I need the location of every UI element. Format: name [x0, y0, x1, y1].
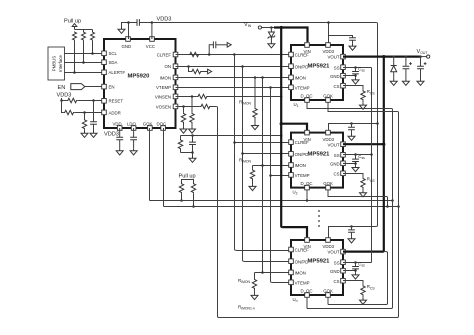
svg-text:VCC: VCC — [146, 44, 155, 49]
ground (VOSEN divider) — [180, 127, 187, 133]
svg-text:GOK: GOK — [323, 288, 333, 293]
capacitor C_ss U1 — [352, 66, 359, 77]
ground (R_CS U2) — [360, 191, 367, 197]
wire IMON bus — [262, 78, 264, 273]
node GND-Css U3 — [354, 269, 357, 272]
wire D_OC U3 drop — [306, 297, 308, 308]
wire GOK U3 route — [328, 252, 388, 305]
node CLREF bus U2 — [233, 141, 236, 144]
svg-text:RESET: RESET — [109, 99, 124, 104]
wire DOC row — [164, 206, 399, 208]
svg-text:ON/PD: ON/PD — [295, 152, 309, 157]
svg-text:IMON: IMON — [295, 76, 306, 81]
svg-text:VTEMP: VTEMP — [156, 85, 171, 90]
wire VTEMP row U3 — [272, 282, 289, 284]
node RESET-C junction — [92, 99, 95, 102]
pin CLREF (MP5920 right) — [157, 52, 178, 57]
pin VOUT U3 — [328, 249, 346, 254]
svg-text:CS: CS — [334, 84, 340, 89]
wire VINSEN row — [176, 96, 282, 98]
pin VTEMP U2 — [289, 173, 310, 178]
wire GOK row — [150, 200, 393, 202]
node VIN tap U2 — [280, 122, 283, 125]
wire RC bottom node — [181, 153, 193, 157]
wire SS row U2 — [343, 154, 372, 156]
wire VIN RC filter node — [181, 135, 282, 137]
node CLREF bus tap — [233, 53, 236, 56]
pin GND U1 — [330, 73, 345, 78]
resistor R_CS U1 — [361, 90, 365, 103]
resistor R RESET pull-up — [67, 98, 78, 102]
svg-text:VDD3: VDD3 — [104, 132, 119, 138]
efuse MP5921 U2 body — [291, 133, 343, 188]
wire VCC pin riser — [151, 23, 153, 40]
svg-text:VOUT: VOUT — [328, 250, 340, 255]
node RC bottom — [191, 151, 194, 154]
wire VOSEN sense route — [216, 107, 398, 318]
ground (LDO cap) — [130, 149, 137, 155]
svg-text:VOUT: VOUT — [328, 55, 340, 60]
node VIN bus top — [280, 26, 283, 29]
wire VTEMP bus — [271, 88, 272, 283]
svg-text:DOC: DOC — [157, 121, 167, 126]
resistor R VINSEN — [197, 94, 208, 98]
wire VDD3 drop U1 — [328, 23, 330, 43]
wire VTEMP row — [176, 87, 289, 89]
pin RESET — [102, 99, 124, 104]
pin VIN U2 — [304, 130, 311, 142]
svg-text:ON/PD: ON/PD — [295, 259, 309, 264]
svg-text:VTEMP: VTEMP — [295, 280, 310, 285]
svg-text:PMBUS: PMBUS — [51, 56, 56, 72]
wire GND pin riser — [122, 23, 129, 40]
ground (C VDD3 U1) — [349, 44, 356, 50]
wire ON row U2 — [243, 153, 289, 155]
node C_out1 tap — [405, 55, 408, 58]
pin DOC (MP5920 bottom) — [157, 121, 167, 130]
wire VOUT row U3 (thick) — [343, 251, 384, 253]
pin ON/PD U2 — [289, 152, 309, 157]
pin GND U3 — [330, 268, 345, 273]
svg-text:CS: CS — [334, 171, 340, 176]
ground (C_out1) — [402, 79, 409, 85]
ground (GND pin U2) — [352, 165, 359, 171]
wire GND row U3 — [343, 270, 356, 272]
capacitor C_ss U2 — [352, 153, 359, 165]
resistor R GOK pull-up — [179, 183, 183, 202]
pin CS U3 — [334, 278, 346, 283]
svg-text:SCL: SCL — [109, 51, 118, 56]
wire VDD3 right bus — [376, 23, 377, 227]
wire IMON row U3 — [255, 272, 289, 274]
pin ADDR — [102, 110, 121, 115]
ground (VINSEN divider) — [189, 127, 196, 133]
wire ALERT# — [65, 72, 102, 74]
node ON bus tap — [241, 65, 244, 68]
pin ON/PD U1 — [289, 64, 309, 69]
node C_out2 tap — [419, 55, 422, 58]
ground (C VDD3 U3) — [348, 237, 355, 243]
pin VOUT U2 — [328, 142, 346, 147]
ground (GND pin U3) — [352, 273, 359, 279]
capacitor C_ss U3 — [352, 261, 359, 272]
resistor R VINSEN divider — [190, 97, 194, 127]
ground (RESET cap) — [90, 131, 97, 137]
node ADDR divider tap — [83, 111, 86, 114]
svg-text:MP5921: MP5921 — [308, 259, 331, 265]
node IMON bus U2 — [261, 164, 264, 167]
svg-text:CLREF: CLREF — [295, 140, 310, 145]
node VOUT bus top — [382, 55, 385, 58]
resistor R pull-up SCL — [91, 30, 95, 55]
ground (C VDD3 U2) — [348, 134, 355, 140]
node EN input flag — [58, 84, 102, 91]
svg-text:ALERT#: ALERT# — [109, 70, 126, 75]
svg-text:VTEMP: VTEMP — [295, 173, 310, 178]
wire SS bus — [371, 68, 373, 263]
arrow CLREF net — [227, 43, 231, 48]
node SS bus U2 — [370, 153, 373, 156]
svg-text:VDD3: VDD3 — [323, 49, 335, 54]
capacitor C_out1 — [403, 57, 412, 79]
node R_IMON1 tap — [254, 76, 257, 79]
pin ALERT# — [102, 70, 126, 75]
pin VDD3 U2 — [323, 130, 335, 142]
efuse MP5921 U3 body — [291, 240, 343, 295]
svg-text:ADDR: ADDR — [109, 110, 121, 115]
node VDD3 bus U2 — [376, 122, 379, 125]
resistor R pull-up ALERT# — [73, 32, 77, 74]
PMBUS interface box — [48, 47, 65, 80]
resistor R VOSEN divider — [181, 107, 185, 127]
svg-text:SS: SS — [334, 65, 340, 70]
resistor R ADDR bottom — [82, 113, 86, 132]
pin D_OC U1 — [301, 93, 313, 102]
capacitor C_out2 — [417, 57, 426, 79]
arrow ON net — [208, 69, 212, 74]
pin CS U2 — [334, 171, 346, 176]
pin GND (MP5920 top) — [122, 37, 132, 49]
wire VIN tap U3 (thick) — [282, 227, 307, 237]
resistor R ON branch — [189, 67, 208, 74]
pin IMON U2 — [289, 163, 306, 168]
wire pull-up top rail — [75, 27, 93, 30]
pin IMON (MP5920) — [160, 75, 178, 80]
wire VOUT row U2 (thick) — [343, 143, 384, 145]
svg-text:CLREF: CLREF — [295, 53, 310, 58]
svg-text:GND: GND — [330, 161, 340, 166]
svg-text:VINSEN: VINSEN — [155, 94, 171, 99]
wire V_IN feed — [262, 27, 277, 29]
node IMON bus U3 — [261, 271, 264, 274]
svg-text:VOUT: VOUT — [328, 142, 340, 147]
ground (GND pin U1) — [352, 78, 359, 84]
wire GOK U1 route — [328, 102, 399, 206]
wire SS row U3 — [343, 262, 372, 264]
wire GND row U2 — [343, 163, 356, 165]
pin ON — [164, 64, 177, 69]
pin VCC (MP5920 top) — [146, 37, 155, 49]
wire GOK drop — [149, 128, 151, 201]
node V_OUT terminal — [417, 49, 430, 58]
svg-text:ON: ON — [164, 64, 171, 69]
wire SCL (PMBUS to pin) — [65, 53, 102, 55]
wire CLREF row — [176, 54, 289, 56]
wire VDD3 top rail — [152, 22, 376, 24]
wire CS row U2 — [343, 174, 363, 178]
capacitor C VCC decoupling — [129, 19, 152, 26]
pin VTEMP U1 — [289, 85, 310, 90]
pin GOK U1 — [323, 93, 333, 102]
svg-text:LDO: LDO — [127, 121, 137, 126]
resistor R_CS U2 — [361, 177, 365, 190]
pin ON/PD U3 — [289, 259, 309, 264]
wire VTEMP row U2 — [271, 175, 289, 177]
node VDD3 rail tap U1 — [327, 21, 330, 24]
svg-text:D_OC: D_OC — [301, 181, 313, 186]
resistor R VOSEN — [200, 104, 211, 108]
svg-text:GOK: GOK — [323, 181, 333, 186]
wire IMON row — [176, 77, 289, 79]
svg-text:GND: GND — [330, 74, 340, 79]
pin GND U2 — [330, 161, 345, 166]
svg-text:Pull up: Pull up — [64, 19, 81, 25]
svg-text:SS: SS — [334, 260, 340, 265]
svg-text:VDD3: VDD3 — [57, 93, 72, 99]
ground (R_CS U1) — [360, 103, 367, 109]
node ON branch — [187, 65, 190, 68]
node RC cap top — [191, 134, 194, 137]
resistor R DOC pull-up — [191, 183, 195, 208]
svg-text:IMON: IMON — [295, 271, 306, 276]
svg-text:MP5920: MP5920 — [128, 74, 151, 80]
ground (VIN RC filter) — [189, 156, 196, 162]
wire GOK U2 route — [328, 190, 389, 208]
ground (R_IMON1) — [252, 123, 259, 129]
svg-text:EN: EN — [58, 85, 66, 91]
svg-text:GOK: GOK — [323, 93, 333, 98]
pin VDD3 U3 — [323, 238, 335, 250]
pin D_OC U3 — [301, 288, 313, 297]
pin GOK (MP5920 bottom) — [143, 121, 153, 130]
capacitor C VIN filter — [189, 136, 196, 153]
node diode tap — [392, 55, 395, 58]
pin VIN U3 — [304, 238, 311, 250]
node GND riser — [127, 21, 130, 24]
node GOK row end — [391, 199, 394, 202]
wire VIN tap U2 (thick) — [281, 124, 307, 131]
svg-text:VDD3: VDD3 — [323, 244, 335, 249]
pin CLREF U1 — [289, 52, 309, 57]
wire DOC drop — [163, 128, 165, 207]
svg-text:ON/PD: ON/PD — [295, 64, 309, 69]
wire VOSEN row — [176, 106, 217, 108]
pin SDA — [102, 60, 118, 65]
node VDD3-RESET tee — [60, 99, 63, 102]
capacitor C RESET — [90, 101, 97, 132]
node VOSEN divider — [182, 105, 185, 108]
resistor R VIN filter — [178, 136, 182, 153]
wire ON bus — [243, 67, 244, 262]
ellipsis more units — [318, 210, 320, 227]
wire CLREF bus — [235, 55, 236, 251]
pin CLREF U3 — [289, 247, 309, 252]
efuse MP5921 U1 body — [291, 45, 343, 100]
capacitor C VDD3 U3 — [348, 225, 355, 236]
pin CS U1 — [334, 83, 346, 88]
pin D_OC U2 — [301, 181, 313, 190]
svg-text:MP5921: MP5921 — [308, 64, 331, 70]
svg-text:VDD3: VDD3 — [323, 137, 335, 142]
pin IMON U1 — [289, 75, 306, 80]
svg-text:VDD3: VDD3 — [157, 17, 172, 23]
wire IMON row U2 — [253, 165, 289, 167]
svg-text:GND: GND — [122, 44, 132, 49]
TVS diode D1 — [268, 28, 276, 42]
pin VOUT U1 — [328, 54, 346, 59]
ground (R_IMON3) — [251, 293, 258, 299]
pin VIN U1 — [304, 43, 311, 55]
wire pull-up bracket — [182, 180, 194, 183]
node VCC riser — [151, 21, 154, 24]
node VINSEN divider — [191, 95, 194, 98]
pin SS U3 — [334, 260, 345, 265]
wire VIN bus (thick) — [281, 28, 282, 228]
node DOC row end — [397, 205, 400, 208]
capacitor C CLREF branch — [209, 41, 227, 54]
wire D_OC U2 drop — [306, 190, 309, 202]
svg-text:IMON: IMON — [160, 75, 171, 80]
pin VDD3 U1 — [323, 43, 335, 55]
diode D output — [391, 57, 397, 79]
resistor R pull-up SDA — [82, 30, 86, 64]
wire CLREF row U2 — [235, 142, 289, 144]
node VTEMP bus tap — [269, 86, 272, 89]
node VINSEN on VIN bus — [280, 95, 283, 98]
ground (R_CS U3) — [360, 298, 367, 304]
svg-text:SS: SS — [334, 153, 340, 158]
wire D_OC U1 route — [307, 102, 393, 308]
wire VOUT row U1 (thick) — [343, 55, 421, 57]
node V_IN terminal — [244, 22, 262, 29]
pin GOK U2 — [323, 181, 333, 190]
wire SS row U1 — [343, 67, 372, 69]
wire CS row U1 — [343, 86, 363, 90]
pin VOSEN — [156, 104, 178, 109]
node TVS tap — [270, 26, 273, 29]
wire VDD pin cap — [116, 128, 123, 149]
pin CLREF U2 — [289, 140, 309, 145]
node RC on VIN bus — [280, 134, 283, 137]
node IMON bus tap — [261, 76, 264, 79]
svg-text:GOK: GOK — [143, 121, 153, 126]
wire VDD3 row U3 — [329, 227, 377, 238]
wire VDD3 to RESET — [62, 98, 102, 101]
wire VIN thick feed — [274, 28, 308, 43]
node CLREF branch — [208, 53, 211, 56]
svg-text:D_OC: D_OC — [301, 288, 313, 293]
pin SS U1 — [334, 65, 345, 70]
wire VOUT bus (thick) — [383, 57, 385, 252]
capacitor C VDD3 U2 — [348, 122, 355, 134]
svg-text:D_OC: D_OC — [301, 93, 313, 98]
pin VTEMP U3 — [289, 280, 310, 285]
pin GOK U3 — [323, 288, 333, 297]
pin SCL — [102, 51, 118, 56]
svg-text:MP5921: MP5921 — [308, 151, 331, 157]
wire VDD3 row U2 — [329, 124, 378, 131]
capacitor C VDD3 U1 — [329, 36, 356, 44]
svg-text:Pull up: Pull up — [179, 174, 196, 180]
svg-text:SDA: SDA — [109, 60, 118, 65]
label Pull up (left) — [64, 19, 81, 27]
ground (top-left GND net) — [118, 27, 125, 33]
resistor R CLREF — [189, 52, 200, 56]
node VOUT bus U2 — [382, 143, 385, 146]
ground (C_out2) — [417, 79, 424, 85]
resistor R ADDR top — [64, 110, 75, 114]
node ON bus U2 — [241, 152, 244, 155]
node GND-Css U2 — [354, 162, 357, 165]
pin VINSEN — [155, 94, 178, 99]
svg-text:Interface: Interface — [58, 54, 63, 71]
wire GND row U1 — [343, 75, 356, 77]
svg-text:CS: CS — [334, 279, 340, 284]
op MP5920 U0 body — [104, 39, 176, 128]
ground (output diode) — [390, 79, 397, 85]
pin VTEMP (MP5920) — [156, 85, 178, 90]
svg-text:VTEMP: VTEMP — [295, 85, 310, 90]
pin LDO — [127, 121, 137, 130]
wire VDD3 to ADDR — [62, 101, 102, 113]
wire ON row U3 — [244, 261, 289, 263]
ground (TVS) — [268, 42, 275, 48]
pin EN (MP5920) — [102, 84, 115, 89]
pin VDD (MP5920 bottom) — [113, 121, 122, 130]
pin SS U2 — [334, 153, 345, 158]
pin IMON U3 — [289, 270, 306, 275]
svg-text:CLREF: CLREF — [295, 248, 310, 253]
resistor R_CS U3 — [361, 285, 365, 298]
capacitor C LDO — [130, 128, 137, 149]
ground (VDD cap) — [116, 149, 123, 155]
ground (ADDR divider) — [81, 131, 88, 137]
svg-text:VOSEN: VOSEN — [156, 104, 171, 109]
svg-text:GND: GND — [330, 269, 340, 274]
svg-text:EN: EN — [109, 85, 115, 90]
svg-text:IMON: IMON — [295, 163, 306, 168]
wire CS row U3 — [343, 281, 363, 285]
svg-text:CLREF: CLREF — [157, 52, 172, 57]
svg-text:VDD: VDD — [113, 121, 122, 126]
resistor R_IMON2 — [250, 166, 254, 185]
wire CLREF row U3 — [236, 250, 289, 252]
resistor R_IMON3 — [252, 273, 256, 294]
resistor R_IMON1 — [253, 78, 257, 124]
wire ON row — [176, 66, 289, 68]
wire SDA — [65, 62, 102, 64]
node VTEMP bus U2 — [269, 174, 272, 177]
node GND-Css U1 — [354, 74, 357, 77]
ground (R_IMON2) — [249, 184, 256, 190]
